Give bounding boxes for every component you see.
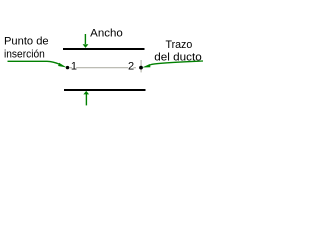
green width arrow (up) below bottom line bbox=[83, 91, 89, 106]
label: Punto de inserción bbox=[4, 36, 49, 61]
svg-text:Trazo: Trazo bbox=[166, 39, 193, 51]
svg-text:inserción: inserción bbox=[4, 49, 45, 61]
point 2 vertical marker (grey) bbox=[140, 60, 142, 72]
svg-text:Punto de: Punto de bbox=[4, 36, 49, 48]
label: Trazo del ducto bbox=[154, 39, 201, 64]
leader from "Punto de inserción" to point 1 bbox=[8, 61, 67, 67]
svg-text:2: 2 bbox=[128, 61, 134, 73]
duct centerline (grey) bbox=[70, 67, 136, 69]
top duct wall line bbox=[63, 48, 145, 50]
point 1 dot bbox=[66, 66, 69, 69]
green width arrow (down) above top line bbox=[83, 34, 89, 48]
point 2 dot bbox=[139, 66, 143, 70]
svg-text:Ancho: Ancho bbox=[90, 28, 123, 40]
bottom duct wall line bbox=[64, 89, 146, 91]
leader from "Trazo del ducto" to point 2 bbox=[142, 61, 203, 68]
svg-text:1: 1 bbox=[71, 61, 77, 73]
